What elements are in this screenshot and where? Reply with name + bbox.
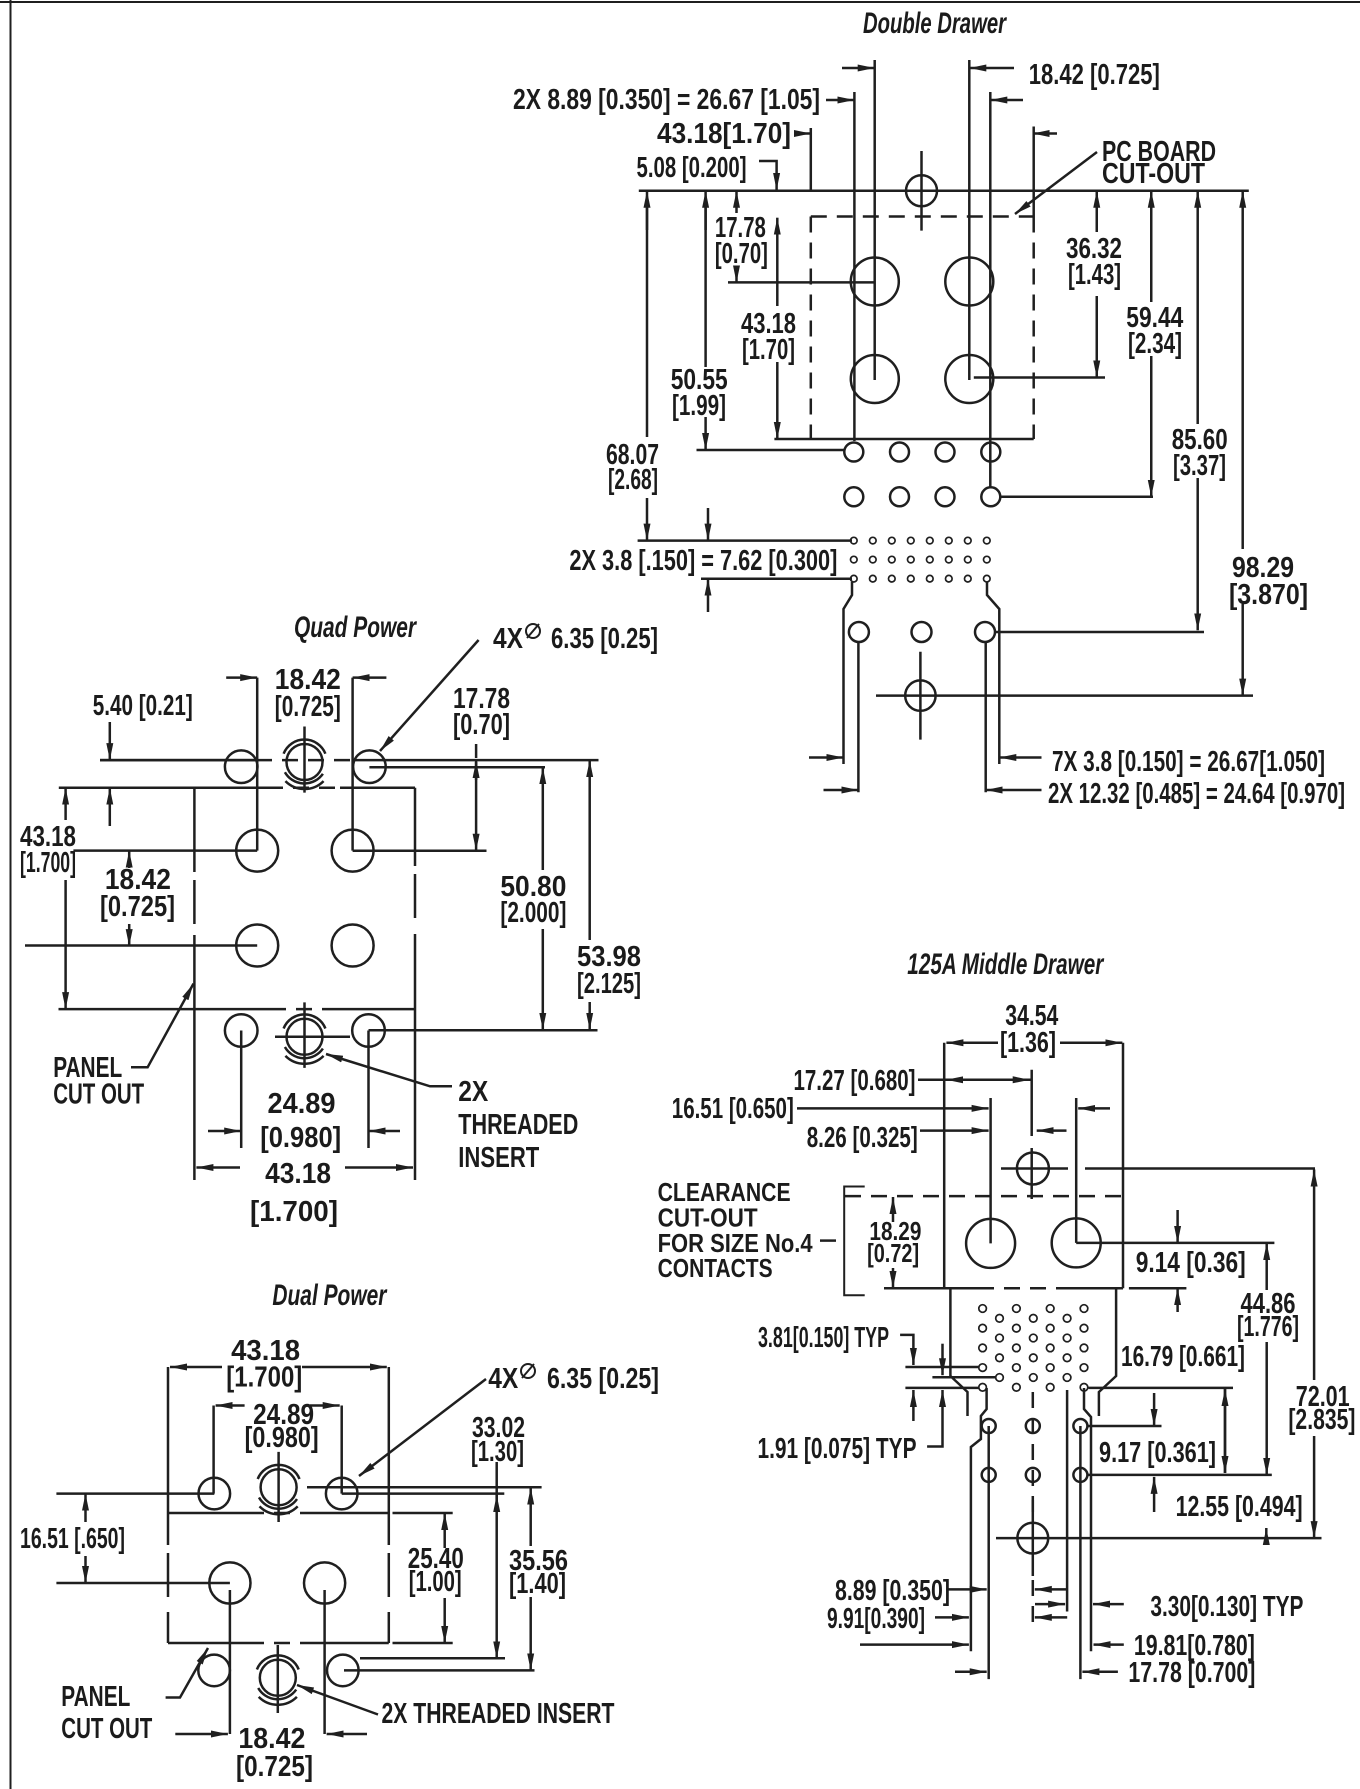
svg-text:[3.870]: [3.870] — [1229, 579, 1308, 611]
svg-text:[1.700]: [1.700] — [250, 1196, 338, 1228]
svg-text:CUT OUT: CUT OUT — [61, 1713, 152, 1745]
svg-text:[1.99]: [1.99] — [672, 390, 726, 422]
svg-text:17.78 [0.700]: 17.78 [0.700] — [1128, 1657, 1255, 1689]
svg-text:[1.776]: [1.776] — [1237, 1311, 1299, 1343]
svg-text:[2.000]: [2.000] — [500, 897, 566, 929]
svg-text:2X THREADED INSERT: 2X THREADED INSERT — [382, 1698, 615, 1730]
svg-text:[1.36]: [1.36] — [1000, 1027, 1056, 1059]
svg-text:3.30[0.130] TYP: 3.30[0.130] TYP — [1150, 1591, 1303, 1623]
svg-text:12.55 [0.494]: 12.55 [0.494] — [1176, 1491, 1303, 1523]
svg-text:Dual Power: Dual Power — [272, 1279, 388, 1312]
svg-text:[1.40]: [1.40] — [509, 1568, 566, 1600]
svg-text:[0.725]: [0.725] — [275, 691, 341, 723]
svg-text:PANEL: PANEL — [61, 1681, 130, 1713]
svg-text:2X 3.8 [.150] = 7.62 [0.300]: 2X 3.8 [.150] = 7.62 [0.300] — [569, 545, 837, 577]
svg-text:4X: 4X — [493, 623, 524, 655]
svg-text:2X: 2X — [458, 1076, 489, 1108]
svg-text:CONTACTS: CONTACTS — [658, 1253, 773, 1283]
svg-text:INSERT: INSERT — [458, 1142, 539, 1174]
svg-text:5.08 [0.200]: 5.08 [0.200] — [637, 152, 747, 184]
svg-text:3.81[0.150] TYP: 3.81[0.150] TYP — [758, 1322, 889, 1354]
svg-text:18.42 [0.725]: 18.42 [0.725] — [1029, 59, 1160, 91]
svg-text:[0.70]: [0.70] — [453, 709, 510, 741]
svg-text:Double Drawer: Double Drawer — [863, 7, 1008, 40]
svg-text:CUT-OUT: CUT-OUT — [1102, 158, 1205, 190]
svg-text:9.14 [0.36]: 9.14 [0.36] — [1136, 1247, 1246, 1279]
svg-text:9.91[0.390]: 9.91[0.390] — [827, 1603, 925, 1635]
svg-text:16.79 [0.661]: 16.79 [0.661] — [1121, 1341, 1245, 1373]
svg-text:[0.980]: [0.980] — [245, 1422, 319, 1454]
svg-text:[0.725]: [0.725] — [100, 891, 175, 923]
svg-text:16.51 [.650]: 16.51 [.650] — [20, 1523, 125, 1555]
svg-text:[2.125]: [2.125] — [577, 968, 641, 1000]
svg-text:6.35 [0.25]: 6.35 [0.25] — [551, 623, 658, 655]
svg-text:16.51 [0.650]: 16.51 [0.650] — [672, 1093, 794, 1125]
svg-text:7X 3.8 [0.150] = 26.67[1.050]: 7X 3.8 [0.150] = 26.67[1.050] — [1052, 746, 1325, 778]
svg-text:[0.72]: [0.72] — [867, 1238, 919, 1268]
svg-text:[2.68]: [2.68] — [608, 464, 658, 496]
svg-text:[1.00]: [1.00] — [409, 1566, 462, 1598]
svg-text:[0.70]: [0.70] — [715, 238, 768, 270]
svg-text:24.89: 24.89 — [268, 1088, 336, 1120]
svg-text:[0.725]: [0.725] — [236, 1751, 313, 1783]
svg-text:CUT OUT: CUT OUT — [53, 1079, 144, 1111]
svg-text:Quad Power: Quad Power — [294, 611, 418, 644]
svg-text:17.27 [0.680]: 17.27 [0.680] — [794, 1065, 916, 1097]
svg-text:[0.980]: [0.980] — [260, 1122, 341, 1154]
svg-text:1.91 [0.075] TYP: 1.91 [0.075] TYP — [758, 1433, 917, 1465]
svg-text:[2.34]: [2.34] — [1128, 328, 1182, 360]
svg-text:[3.37]: [3.37] — [1173, 450, 1226, 482]
svg-text:43.18[1.70]: 43.18[1.70] — [657, 118, 791, 150]
svg-text:43.18: 43.18 — [265, 1158, 331, 1190]
svg-text:[2.835]: [2.835] — [1288, 1404, 1355, 1436]
svg-text:4X: 4X — [488, 1363, 519, 1395]
svg-text:[1.700]: [1.700] — [226, 1362, 302, 1394]
svg-text:5.40 [0.21]: 5.40 [0.21] — [93, 690, 193, 722]
svg-text:[1.70]: [1.70] — [742, 334, 795, 366]
svg-text:[1.700]: [1.700] — [20, 847, 76, 879]
svg-text:8.26 [0.325]: 8.26 [0.325] — [807, 1122, 918, 1154]
svg-text:THREADED: THREADED — [458, 1109, 578, 1141]
svg-text:9.17 [0.361]: 9.17 [0.361] — [1099, 1437, 1216, 1469]
svg-text:[1.43]: [1.43] — [1068, 259, 1121, 291]
svg-text:6.35 [0.25]: 6.35 [0.25] — [547, 1363, 659, 1395]
svg-text:2X 8.89 [0.350] = 26.67 [1.05: 2X 8.89 [0.350] = 26.67 [1.05] — [513, 84, 820, 116]
svg-text:2X 12.32 [0.485] = 24.64 [0.9: 2X 12.32 [0.485] = 24.64 [0.970] — [1048, 778, 1345, 810]
svg-text:125A Middle Drawer: 125A Middle Drawer — [907, 948, 1105, 981]
